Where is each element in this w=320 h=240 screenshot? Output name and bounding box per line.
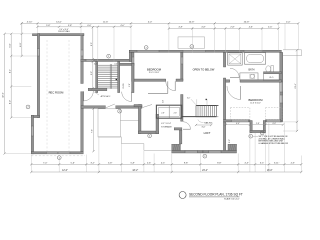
dim interior hall lower (91, 60, 94, 89)
dim loft east rotated (229, 139, 231, 143)
svg-text:4'-0": 4'-0" (286, 22, 291, 24)
title circle (179, 192, 186, 199)
svg-text:8'-0": 8'-0" (91, 71, 93, 75)
bay window east dashed (266, 108, 283, 120)
title text (189, 193, 243, 201)
svg-text:8'-0": 8'-0" (9, 100, 11, 104)
wall rec-room west jog (31, 115, 39, 117)
dashed line rec-room a (46, 40, 48, 152)
svg-text:5'-8": 5'-8" (108, 163, 113, 165)
vanity with sink (240, 73, 258, 80)
svg-text:4'-6": 4'-6" (249, 27, 253, 29)
wall bedroom2 west (132, 52, 134, 79)
door bedroom2 (166, 81, 175, 90)
svg-text:11'-6" X 13'-0": 11'-6" X 13'-0" (250, 102, 261, 104)
closet CLO box (264, 74, 280, 81)
svg-text:4'-0": 4'-0" (272, 123, 276, 125)
svg-text:4'-0": 4'-0" (87, 25, 91, 27)
wall storage south (138, 131, 158, 134)
svg-text:4'-0": 4'-0" (120, 25, 124, 27)
svg-text:23'-2": 23'-2" (202, 170, 208, 172)
label BEDROOM-3 (249, 98, 264, 105)
svg-text:8'-0": 8'-0" (229, 139, 231, 143)
svg-text:4'-8": 4'-8" (201, 27, 205, 29)
label OPEN TO BELOW (193, 67, 215, 71)
svg-text:STORAGE: STORAGE (161, 125, 172, 128)
wall rec-room west upper (37, 34, 39, 118)
svg-text:CLOS: CLOS (123, 83, 125, 89)
wall bedroom2 east (181, 52, 183, 80)
svg-text:4'-1" X 6'-4": 4'-1" X 6'-4" (161, 123, 171, 125)
wall storage east (156, 114, 159, 133)
svg-text:9'-8": 9'-8" (184, 163, 189, 165)
svg-text:2'-6": 2'-6" (147, 163, 152, 165)
keynote circle stair hall (107, 54, 111, 58)
wall loft west (174, 95, 183, 144)
door hall closet (106, 92, 152, 108)
bathtub (245, 53, 266, 65)
keynote circle top wall b (190, 45, 194, 49)
wall rec-room north (32, 34, 84, 36)
wall hall south (81, 106, 142, 109)
dim left inner (20, 22, 23, 57)
svg-text:9'-8": 9'-8" (217, 163, 222, 165)
wall bedroom3 south-east seg (266, 120, 282, 122)
dashed line below rec wall (31, 155, 85, 157)
svg-text:OPEN TO BELOW: OPEN TO BELOW (193, 67, 215, 71)
bay window west dashed (230, 108, 250, 120)
svg-text:11'-6": 11'-6" (103, 22, 109, 24)
svg-text:REC ROOM: REC ROOM (49, 90, 65, 94)
wall jog mid-north (129, 50, 131, 61)
dim bottom tier 1 (30, 163, 302, 166)
dim bottom tier 2 (30, 170, 302, 173)
wall storage west (138, 105, 141, 134)
wall closet east (132, 63, 134, 92)
svg-text:RAILING: RAILING (204, 121, 212, 124)
roof outline south steps (98, 137, 171, 151)
extension lines right (281, 122, 297, 131)
svg-text:2'-8": 2'-8" (161, 113, 165, 115)
svg-text:SECOND FLOOR PLAN, 1736 SQ FT: SECOND FLOOR PLAN, 1736 SQ FT (189, 193, 243, 197)
label CLOS (94, 64, 131, 89)
wall chimney nook south (250, 130, 266, 132)
svg-text:4'-0": 4'-0" (148, 22, 153, 24)
dim top tier A (20, 22, 299, 25)
keynote circle top wall a (144, 46, 148, 50)
svg-text:2'-8": 2'-8" (174, 113, 178, 115)
svg-text:& GARAGE STRUCTURE BELOW: & GARAGE STRUCTURE BELOW (259, 142, 289, 145)
svg-text:5'-8": 5'-8" (46, 25, 50, 27)
wall bedroom3 south-west seg (223, 120, 250, 122)
label BATH (249, 68, 255, 71)
keynote circle rec south (57, 156, 61, 160)
svg-text:4'-6": 4'-6" (268, 27, 272, 29)
extension lines top (38, 23, 299, 61)
svg-text:18'-2": 18'-2" (132, 170, 138, 172)
svg-text:SCALE: 1/4"=1'-0": SCALE: 1/4"=1'-0" (224, 197, 240, 200)
dim bay local (225, 123, 285, 126)
dim attic stair (195, 124, 212, 129)
wall hall-east thin (148, 81, 168, 93)
svg-text:4'-0": 4'-0" (94, 64, 98, 66)
svg-text:BEDROOM: BEDROOM (147, 67, 162, 71)
door rec-room to hall (84, 91, 94, 101)
keynote circle hall south (118, 109, 122, 113)
wall loft south-east pier (228, 144, 237, 150)
wall storage north stub (134, 105, 142, 107)
wall main north (129, 50, 281, 52)
wall chimney nook west (250, 121, 252, 133)
dim note 2x6 wall (58, 29, 70, 33)
roof outline top-right (283, 50, 302, 56)
svg-text:BATH: BATH (249, 68, 255, 71)
extension lines left (5, 23, 38, 153)
extension lines bottom (31, 123, 301, 173)
svg-text:3'-2": 3'-2" (90, 163, 95, 165)
svg-text:8'-0": 8'-0" (91, 42, 93, 46)
dim interior hall (91, 26, 94, 60)
svg-text:12'-0": 12'-0" (62, 170, 68, 172)
wall east (280, 52, 283, 122)
svg-text:11'-0" X 13'-6": 11'-0" X 13'-6" (149, 72, 160, 74)
svg-text:2'-0": 2'-0" (129, 83, 131, 87)
wall rec-room west lower (31, 115, 33, 153)
label RAILING (198, 120, 213, 125)
label BEDROOM-2 (147, 67, 162, 74)
label STORAGE (161, 123, 172, 128)
svg-text:4'-3": 4'-3" (244, 163, 249, 165)
label LOFT (204, 131, 211, 135)
svg-text:3'-11": 3'-11" (274, 163, 280, 165)
dim top tier B right (168, 27, 280, 30)
dashed line rec-room b (68, 40, 70, 152)
toilet (266, 66, 274, 73)
keynote circle nook (260, 131, 264, 135)
wall bath interior (264, 72, 282, 74)
wall rec-room east (81, 36, 83, 152)
svg-text:4'-5": 4'-5" (161, 163, 166, 165)
dim top tier B left (36, 25, 132, 28)
dim left outer (3, 33, 6, 155)
svg-text:2'-8": 2'-8" (230, 27, 234, 29)
dim right (295, 49, 298, 132)
wall west-of-right-section (223, 52, 225, 152)
svg-text:5'-6": 5'-6" (71, 163, 76, 165)
wall loft south-west pier (172, 144, 181, 150)
wall bath south (226, 80, 282, 82)
dim left mid (9, 33, 12, 119)
label attic access (94, 92, 112, 99)
staircase attic (187, 97, 219, 116)
svg-text:7'-6": 7'-6" (92, 129, 94, 133)
closet box walls (156, 99, 181, 118)
svg-text:21'-4": 21'-4" (295, 83, 297, 89)
svg-text:16'-0": 16'-0" (267, 170, 273, 172)
svg-text:8'-2": 8'-2" (9, 69, 11, 73)
svg-text:BEDROOM: BEDROOM (249, 98, 264, 102)
svg-text:4'-3": 4'-3" (291, 163, 296, 165)
svg-text:ATTIC ACC: ATTIC ACC (101, 95, 111, 98)
wall chimney nook east (263, 121, 265, 133)
roof outline top-center rect (178, 37, 205, 48)
svg-text:5'-8": 5'-8" (9, 43, 11, 47)
hall counter line (120, 119, 138, 121)
svg-text:20'-8": 20'-8" (244, 22, 250, 24)
label REC ROOM (49, 90, 65, 94)
wall closet north (120, 63, 134, 65)
attic hatch rectangle (98, 109, 120, 137)
svg-text:4'-8": 4'-8" (179, 27, 183, 29)
wall loft south (172, 150, 237, 153)
svg-text:2X6 EXT WALL: 2X6 EXT WALL (58, 30, 70, 33)
svg-text:7'-0": 7'-0" (43, 163, 48, 165)
wall bedroom2 south (132, 79, 183, 81)
svg-text:8'-0": 8'-0" (20, 42, 22, 46)
svg-text:4'-0": 4'-0" (236, 123, 240, 125)
door bedroom3 (227, 86, 241, 100)
keynote circle loft south (203, 154, 207, 158)
svg-text:5'-0": 5'-0" (187, 97, 191, 99)
svg-text:CLO: CLO (269, 77, 274, 79)
svg-text:14'-0": 14'-0" (56, 22, 62, 24)
svg-text:2'-8": 2'-8" (163, 99, 165, 103)
svg-text:5'-8": 5'-8" (130, 163, 135, 165)
railing line (182, 116, 216, 118)
svg-text:3'-5": 3'-5" (260, 163, 265, 165)
note block gyp board (249, 134, 289, 145)
svg-text:32'-6": 32'-6" (3, 92, 5, 98)
staircase main (switchback) (88, 62, 120, 93)
svg-text:3'-0": 3'-0" (202, 127, 206, 129)
keynote circle rec west (26, 105, 30, 109)
svg-text:10'-8": 10'-8" (189, 22, 195, 24)
svg-text:5'-8": 5'-8" (68, 25, 72, 27)
shower (228, 53, 243, 65)
wall mid north (81, 59, 132, 61)
keynote circle storage (148, 134, 152, 138)
svg-text:LOFT: LOFT (204, 131, 211, 135)
door bath (230, 68, 239, 77)
dim interior lower hall (92, 108, 95, 153)
svg-text:4'-0": 4'-0" (114, 64, 118, 66)
wall rec-room south (31, 152, 83, 154)
door loft (183, 122, 191, 130)
svg-text:2'-8": 2'-8" (256, 123, 260, 125)
svg-text:4'-10": 4'-10" (27, 22, 33, 24)
